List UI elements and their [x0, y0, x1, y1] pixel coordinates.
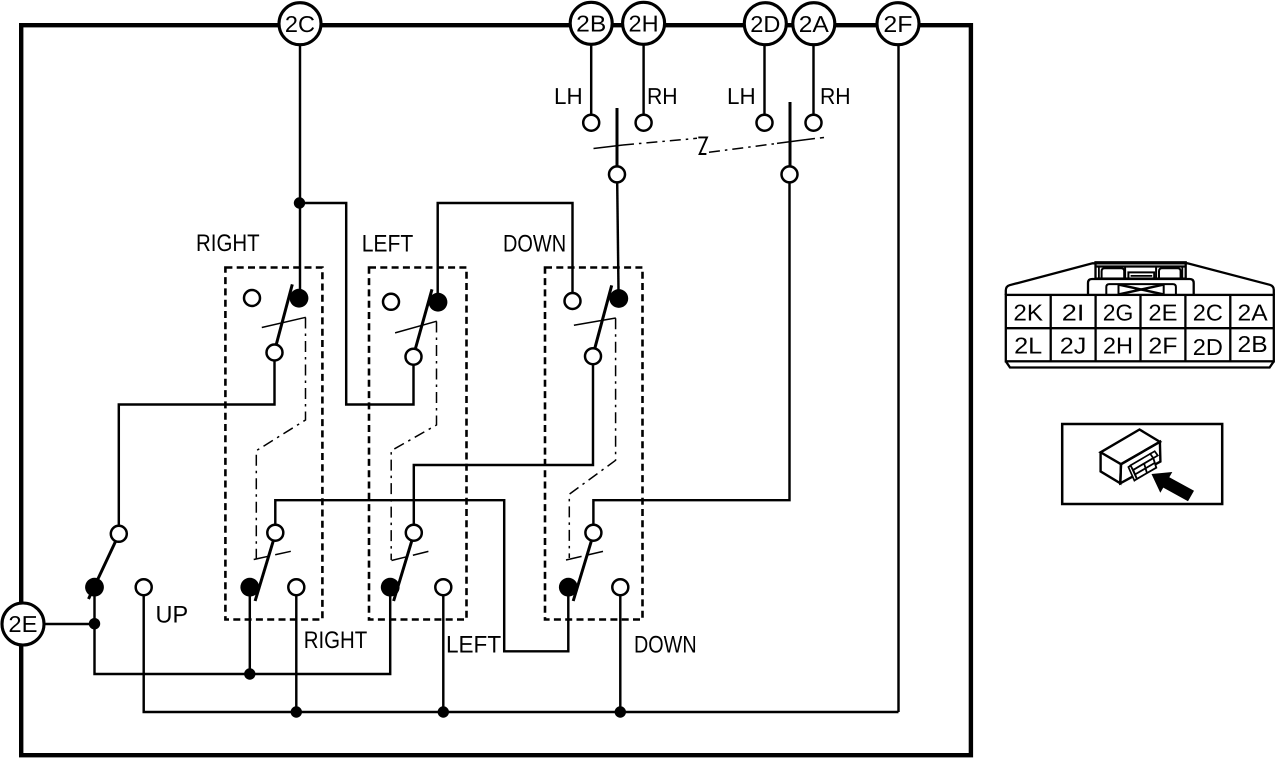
node junction on bus below RIGHT box: [291, 706, 302, 717]
DOWN switch upper lever: [595, 285, 612, 348]
LEFT switch lower movable contact: [406, 525, 422, 541]
node junction on 2C feed: [294, 197, 305, 208]
wire 2B stub: [590, 45, 592, 115]
svg-text:2H: 2H: [1103, 332, 1133, 358]
DOWN switch upper fixed contact (closed): [609, 289, 628, 308]
wire 2C feed down to RIGHT switch: [299, 45, 301, 290]
svg-text:LH: LH: [727, 83, 756, 109]
svg-text:2E: 2E: [1148, 299, 1177, 325]
RIGHT switch upper movable contact: [267, 345, 283, 361]
DOWN switch lower lever: [573, 541, 591, 601]
wire 2D stub: [763, 46, 765, 115]
svg-text:2K: 2K: [1013, 299, 1043, 325]
relay unit socket latch tab: [1150, 451, 1158, 458]
svg-text:UP: UP: [156, 602, 189, 629]
wire 2A stub: [812, 46, 814, 115]
RIGHT switch lower lever: [255, 541, 273, 601]
DOWN switch upper open contact: [565, 293, 581, 309]
contact 2B LH mirror: [583, 115, 599, 131]
wire 2E to UP-DOWN select common: [45, 623, 95, 625]
svg-text:2F: 2F: [1148, 332, 1177, 358]
svg-text:DOWN: DOWN: [503, 231, 566, 258]
terminal 2A: [793, 3, 835, 45]
linkage dash-dot LEFT box: [391, 321, 437, 560]
wire RIGHT lower fixed contact leg: [249, 596, 251, 674]
relay unit 3d body left face: [1101, 452, 1121, 483]
UP-DOWN select movable contact: [111, 526, 127, 542]
mirror select lever 1 pivot contact: [609, 166, 625, 182]
wire from mirror-select lever 1 to DOWN switch upper fixed contact: [617, 183, 618, 290]
relay unit socket terminal face with grid: [1133, 458, 1156, 479]
dashed enclosure RIGHT switch: [225, 268, 322, 620]
connector shell outline: [1006, 262, 1274, 367]
svg-text:2A: 2A: [1238, 299, 1269, 325]
wire DOWN switch upper movable contact to LEFT lower movable contact: [414, 365, 593, 525]
svg-text:2E: 2E: [8, 611, 37, 637]
linkage dash-dot RIGHT box: [254, 317, 306, 559]
wire from mirror-select lever 2 down to DOWN lower movable contact: [593, 183, 789, 525]
contact 2A RH mirror: [806, 115, 822, 131]
LEFT switch upper movable contact: [406, 349, 422, 365]
DOWN switch lower open contact: [612, 579, 628, 595]
svg-text:2F: 2F: [883, 11, 912, 37]
connector latch tab upper: [1096, 262, 1186, 278]
RIGHT switch lower fixed contact (closed): [240, 578, 259, 597]
terminal 2D: [744, 3, 786, 45]
wire RIGHT lower movable contact to DOWN lower fixed contact: [275, 500, 568, 651]
terminal 2F: [877, 3, 919, 45]
connector bottom lip: [1006, 361, 1274, 367]
LEFT switch lower open contact: [435, 579, 451, 595]
svg-text:2D: 2D: [750, 11, 780, 37]
svg-text:2G: 2G: [1103, 299, 1134, 325]
RIGHT switch upper open contact: [244, 290, 260, 306]
LEFT switch upper open contact: [383, 294, 399, 310]
DOWN switch lower fixed contact (closed): [559, 578, 578, 597]
relay unit socket left end cap: [1128, 466, 1137, 481]
arrow pointing to socket: [1152, 472, 1195, 501]
svg-text:2L: 2L: [1014, 332, 1042, 358]
contact 2D LH mirror: [757, 115, 773, 131]
svg-text:DOWN: DOWN: [634, 632, 697, 659]
wire 2F down to bottom bus: [897, 46, 899, 713]
svg-text:2J: 2J: [1060, 332, 1087, 358]
contact UP open: [136, 579, 152, 595]
dashed enclosure LEFT switch: [369, 268, 467, 620]
terminal 2C: [279, 3, 321, 45]
dashed enclosure DOWN switch: [545, 268, 643, 620]
svg-text:LEFT: LEFT: [362, 231, 414, 258]
RIGHT switch upper fixed contact (closed): [290, 289, 309, 308]
mirror select lever 1 arm: [616, 108, 619, 166]
contact 2H RH mirror: [636, 115, 652, 131]
DOWN switch upper movable contact: [585, 348, 601, 364]
frame border of switch internal-circuit box: [21, 25, 971, 755]
wire 2H stub: [642, 45, 644, 115]
relay unit 3d body top face: [1101, 430, 1160, 465]
mirror select switch linkage dash-dot with break: [594, 137, 825, 154]
LEFT switch lower lever: [394, 541, 412, 601]
view location box: [1062, 424, 1222, 504]
svg-text:2B: 2B: [576, 10, 606, 36]
linkage dash-dot DOWN box: [566, 318, 616, 560]
wire from node on 2C feed to LEFT switch movable contact: [300, 203, 414, 405]
svg-text:2C: 2C: [285, 11, 315, 37]
svg-text:2H: 2H: [629, 10, 659, 36]
svg-text:RIGHT: RIGHT: [196, 230, 260, 257]
DOWN switch lower movable contact: [585, 525, 601, 541]
terminal 2E: [2, 603, 44, 645]
UP-DOWN select common fixed contact (closed): [85, 578, 104, 597]
terminal 2B: [570, 2, 612, 44]
connector latch tab lower with cross brace: [1088, 279, 1194, 295]
mirror select lever 2 pivot contact: [782, 166, 798, 182]
RIGHT switch lower movable contact: [267, 525, 283, 541]
wire DOWN lower open contact to bus: [619, 595, 621, 712]
svg-text:2C: 2C: [1193, 299, 1223, 325]
LEFT switch upper lever: [415, 289, 432, 349]
node junction RIGHT lower fixed contact on 674 wire: [244, 668, 255, 679]
wire UP-DOWN select common down and right to lower fixed contacts: [95, 596, 391, 674]
svg-text:RH: RH: [820, 83, 851, 109]
UP-DOWN select lever: [89, 542, 116, 600]
svg-text:RIGHT: RIGHT: [304, 627, 368, 654]
RIGHT switch lower open contact: [288, 579, 304, 595]
svg-text:2B: 2B: [1238, 331, 1268, 357]
node junction 2E on common leg: [89, 618, 100, 629]
wire LEFT lower open contact to bus: [442, 595, 444, 712]
node junction on bus below DOWN box: [615, 706, 626, 717]
relay unit 3d body right face: [1120, 442, 1160, 484]
LEFT switch lower fixed contact (closed): [381, 578, 400, 597]
RIGHT switch upper lever: [276, 284, 292, 344]
LEFT switch upper fixed contact (closed): [429, 293, 448, 312]
svg-text:2D: 2D: [1193, 334, 1223, 360]
wire UP contact down to bottom bus: [144, 595, 899, 712]
wire RIGHT switch movable contact to UP-DOWN select movable contact: [119, 361, 275, 526]
relay unit socket top face band: [1131, 454, 1154, 470]
terminal 2H: [623, 2, 665, 44]
svg-text:LEFT: LEFT: [446, 632, 501, 659]
wire bridging LEFT switch upper fixed contact to DOWN switch upper open contact: [438, 203, 573, 294]
wire RIGHT lower open contact to bus: [295, 595, 297, 712]
connector terminal grid: [1006, 295, 1274, 361]
svg-text:2A: 2A: [799, 11, 830, 37]
svg-text:2I: 2I: [1062, 299, 1085, 325]
node junction on bus below LEFT box: [438, 706, 449, 717]
svg-text:LH: LH: [554, 83, 583, 109]
mirror select lever 2 arm: [789, 102, 792, 166]
svg-text:RH: RH: [647, 83, 678, 109]
